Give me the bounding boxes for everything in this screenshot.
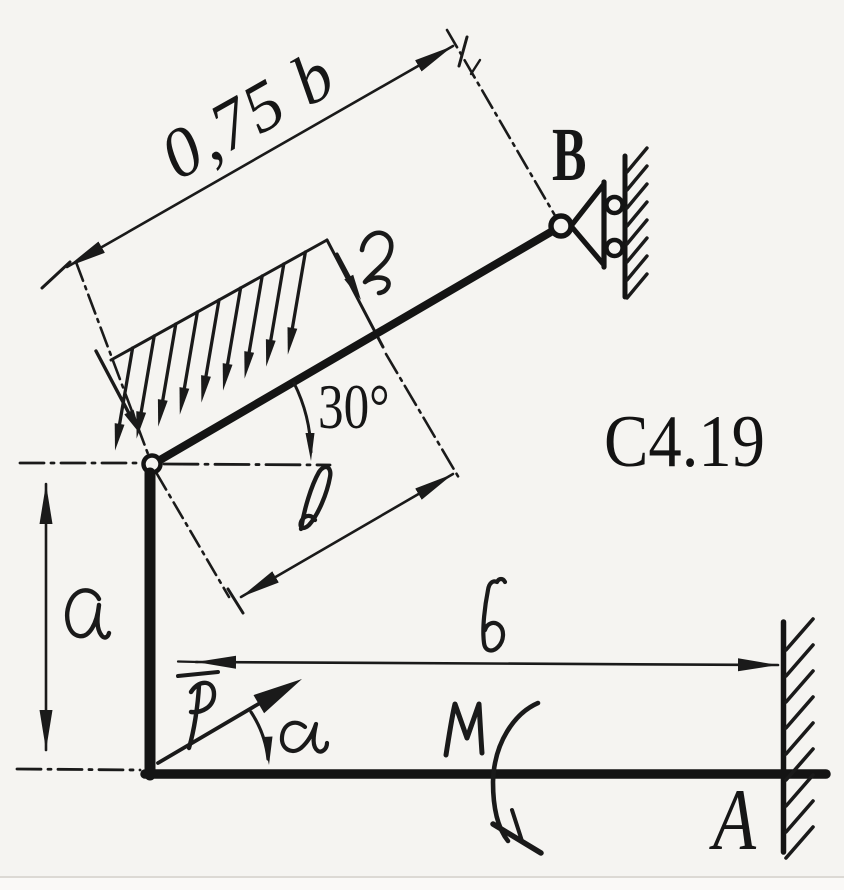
force P arrow [158, 696, 272, 763]
label C4.19 [604, 401, 765, 483]
load arrow 10 [292, 252, 305, 328]
horizontal dash-dot axis right of hinge [164, 464, 330, 465]
label ell (script) [301, 467, 331, 529]
pin circle at B [551, 216, 571, 236]
wall hatching at B [627, 148, 647, 172]
witness tick at left end of 0,75b [42, 262, 70, 288]
witness dash-dot from hinge to 0,75b left end [76, 262, 148, 454]
label q (script) [362, 233, 391, 293]
load arrow 11 (on right edge) [337, 254, 353, 284]
load arrow 1 (left edge of band) [96, 351, 133, 421]
load arrow 8 [249, 276, 262, 352]
load arrow 7 [228, 288, 241, 364]
label alpha (script) [282, 723, 327, 752]
witness dash-dot from hinge perpendicular to ell dimension [157, 474, 229, 597]
hinge pin circle [144, 456, 161, 473]
dimension line 0,75b [67, 46, 453, 267]
label P with overbar [178, 672, 218, 676]
dash-dot bit beyond right tick [471, 60, 480, 74]
bottom dash-dot axis left of corner [17, 769, 140, 770]
label b (script) [483, 579, 505, 650]
load arrow 2 [120, 348, 133, 424]
dimension line a [45, 484, 48, 750]
dimension line b [178, 660, 198, 663]
witness tick at left end of ell dimension [228, 589, 243, 613]
svg-text:A: A [709, 772, 757, 869]
witness tick at right end of 0,75b [459, 37, 467, 66]
roller 1 [607, 197, 623, 213]
dimension line ell [241, 474, 453, 597]
label a (script) [67, 590, 109, 637]
load band right edge [327, 240, 383, 347]
witness dash-dot extension of band right edge [386, 354, 459, 478]
label A [709, 772, 757, 869]
svg-text:30°: 30° [318, 371, 390, 443]
load arrow 9 [271, 264, 284, 340]
moment arrowhead strokes [493, 824, 541, 853]
moment M arc [493, 703, 538, 841]
roller support triangle at B [571, 182, 604, 267]
witness dash-dot from pin B to 0,75b right end [447, 30, 557, 219]
wall line at A [781, 622, 787, 852]
svg-text:C4.19: C4.19 [604, 401, 765, 483]
load arrow 6 [206, 300, 219, 376]
load arrow 5 [184, 312, 197, 388]
roller 2 [607, 240, 623, 256]
label B [552, 113, 586, 197]
label M [446, 704, 482, 755]
load arrow 4 [163, 324, 176, 400]
wall line at B [623, 156, 628, 297]
load band top line [111, 240, 327, 360]
inclined beam [160, 229, 556, 460]
vertical column [145, 473, 156, 775]
bottom beam [145, 769, 826, 779]
load arrow 3 [141, 336, 154, 412]
horizontal dash-dot axis left of hinge [20, 462, 142, 465]
wall hatching at A [786, 619, 813, 650]
label 30deg [318, 371, 390, 443]
30-degree angle arc [294, 383, 311, 452]
angle alpha arc [251, 712, 268, 759]
svg-text:B: B [552, 113, 586, 197]
